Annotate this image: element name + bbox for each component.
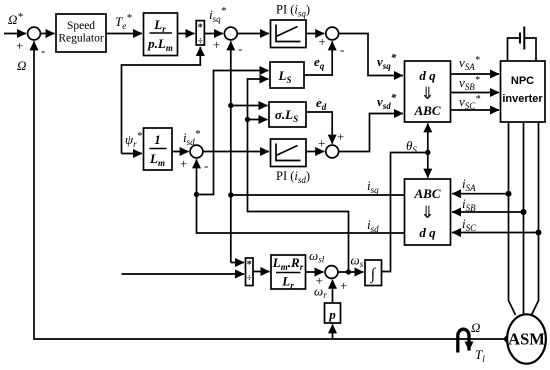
svg-text:+: +: [318, 136, 325, 151]
summing junction S5: [325, 266, 347, 293]
wire phase C line: [532, 122, 539, 315]
load torque symbol: [458, 329, 469, 352]
junction isd at branch: [194, 192, 199, 197]
wire D2 to LmRr/Lr: [253, 271, 270, 273]
wire S5 to integrator: [338, 271, 363, 273]
block Lm.Rr/Lr: [271, 255, 306, 291]
divider block D2: [246, 258, 254, 286]
junction tap iSA: [506, 191, 512, 197]
junction tap iSC: [536, 230, 542, 236]
svg-text:+: +: [180, 156, 187, 171]
svg-text:ABC: ABC: [413, 186, 440, 201]
junction theta-S: [425, 150, 430, 155]
wire LmRr to summing junction S5: [306, 272, 324, 288]
junction tap iSB: [521, 209, 527, 215]
svg-text:÷: ÷: [198, 36, 203, 46]
wire sigmaLS output ed to S4: [306, 112, 344, 144]
svg-text:Regulator: Regulator: [58, 33, 104, 45]
svg-text:+: +: [16, 38, 23, 53]
wire vSB* to NPC: [451, 92, 500, 94]
svg-text:+: +: [319, 34, 326, 49]
wire phase A line: [509, 122, 516, 315]
svg-text:ABC: ABC: [413, 103, 440, 118]
svg-text:⇓: ⇓: [420, 203, 434, 222]
wire vSA* to NPC: [451, 73, 500, 75]
wire S3 to dq-ABC vsq* input: [339, 34, 403, 76]
svg-text:-: -: [41, 43, 45, 58]
block ABC to dq: [405, 179, 451, 245]
svg-text:-: -: [238, 41, 242, 56]
svg-text:d q: d q: [419, 225, 436, 240]
svg-text:Speed: Speed: [67, 20, 95, 32]
svg-text:inverter: inverter: [502, 93, 543, 105]
junction omega-s: [346, 269, 351, 274]
wire psi-r* rail to divider D2 denominator: [122, 273, 245, 275]
svg-text:PI (isq): PI (isq): [276, 3, 310, 19]
wire Lr/pLm to divider D1: [178, 33, 195, 35]
svg-text:Lm.Rr: Lm.Rr: [272, 255, 304, 272]
summing junction S1: [16, 27, 45, 58]
wire S1 to Speed Regulator: [41, 33, 55, 35]
junction speed at ASM: [504, 336, 511, 343]
wire omega-s branch into sigmaLS input 2: [248, 119, 268, 121]
svg-text:+: +: [213, 37, 220, 52]
summing junction S3: [326, 27, 345, 57]
wire S4 to dq-ABC vsd* input: [339, 114, 403, 152]
svg-text:p: p: [328, 307, 336, 322]
wire integrator to theta-S junction: [382, 153, 427, 272]
block LS: [270, 62, 304, 88]
wire iSA to ABC-dq: [452, 193, 508, 195]
block 1/Lm: [144, 128, 173, 170]
svg-text:NPC: NPC: [511, 75, 534, 87]
svg-text:1: 1: [154, 132, 161, 147]
wire isd branch up to LS input 1: [197, 71, 269, 195]
svg-text:-: -: [340, 42, 344, 57]
wire isq rail to divider D2 numerator: [231, 262, 244, 264]
wire speed feedback to p: [332, 324, 334, 339]
block integrator: [365, 260, 382, 286]
motor ASM: [507, 314, 546, 363]
divider block D1: [196, 21, 204, 46]
svg-text:ASM: ASM: [508, 330, 545, 349]
wire S4b to PI isd: [203, 151, 269, 153]
wire iSC to ABC-dq: [452, 232, 538, 234]
svg-text:Ω: Ω: [17, 58, 26, 73]
svg-text:*: *: [198, 23, 203, 34]
wire PI isd to summing junction S4: [307, 136, 326, 152]
wire psi-r* rail to D1 denominator: [122, 47, 201, 154]
wire phase B line: [523, 122, 525, 314]
svg-text:+: +: [340, 278, 347, 293]
wire theta-S down into ABC-dq: [427, 153, 429, 178]
wire Speed Regulator to Lr/pLm: [106, 33, 142, 35]
wire isd feedback from ABC-dq: [197, 159, 405, 233]
block p: [325, 303, 341, 323]
block NPC inverter: [501, 61, 546, 122]
wire Ω* input: [4, 33, 26, 35]
wire theta-S up into dq-ABC: [427, 123, 429, 152]
wire S2 to PI isq: [237, 33, 269, 35]
svg-text:Ω: Ω: [471, 320, 480, 335]
svg-text:*: *: [247, 260, 252, 271]
wire isq rail up to S2: [230, 41, 232, 262]
svg-text:+: +: [337, 129, 344, 144]
svg-text:-: -: [204, 158, 208, 173]
summing junction S4: [326, 145, 339, 158]
block Speed Regulator: [56, 14, 106, 52]
block PI isq: [271, 20, 307, 48]
summing junction S2: [213, 27, 242, 56]
svg-text:⇓: ⇓: [420, 84, 434, 103]
wire speed feedback line: [34, 41, 508, 339]
wire LS output eq to S3: [304, 41, 332, 75]
wire vSC* to NPC: [451, 109, 500, 111]
wire psi-r* into 1/Lm: [122, 153, 143, 155]
svg-text:d q: d q: [419, 68, 436, 83]
block Lr/p.Lm: [144, 13, 178, 56]
wire iSB to ABC-dq: [452, 211, 523, 213]
wire 1/Lm to summing junction S4b: [172, 151, 189, 153]
DC source battery: [508, 27, 537, 62]
junction omega-s at sigmaLS branch: [245, 117, 250, 122]
wire omega-s rail to LS input 2: [248, 79, 349, 272]
wire p to S5: [332, 280, 334, 303]
wire D1 to summing junction S2: [205, 33, 223, 35]
block PI isd: [271, 139, 307, 167]
block dq to ABC: [405, 61, 451, 122]
summing junction S4b isd: [180, 145, 208, 173]
svg-text:÷: ÷: [247, 273, 252, 283]
wire isq feedback from ABC-dq: [231, 194, 405, 196]
block sigma.LS: [269, 102, 306, 127]
svg-text:PI (isd): PI (isd): [276, 169, 310, 185]
junction isq at sigmaLS branch: [228, 103, 233, 108]
wire PI isq to summing junction S3: [307, 34, 326, 50]
wire isq branch into sigmaLS input 1: [231, 105, 268, 107]
junction isq at feedback line: [228, 192, 233, 197]
